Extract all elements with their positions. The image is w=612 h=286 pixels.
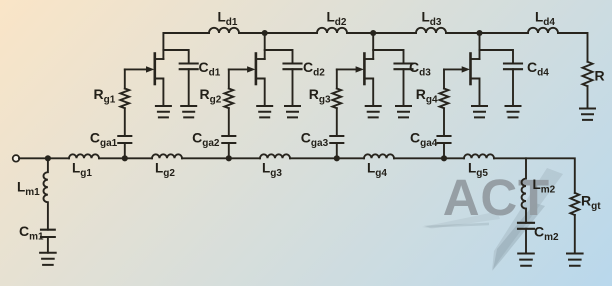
svg-text:Cd4: Cd4 <box>527 59 549 79</box>
wire: Rg4 to Cga4 <box>443 108 445 136</box>
ground (Cm2) <box>518 254 534 266</box>
ground (Cd3) <box>396 106 411 117</box>
transistor Q4 drain lead <box>471 58 480 60</box>
svg-text:Ld4: Ld4 <box>535 10 555 29</box>
wire: Rgt to ground <box>574 215 576 254</box>
transistor Q3 gate wire with arrow <box>337 68 357 70</box>
wire: Lg1 to Lg2 <box>99 157 152 159</box>
wire: top rail Ld1 to Ld2 <box>239 32 317 34</box>
transistor Q1 source lead <box>155 79 164 107</box>
wire: Cm1 to ground <box>47 237 49 253</box>
capacitor Cga4 <box>438 136 451 143</box>
svg-text:Rg2: Rg2 <box>200 86 222 106</box>
capacitor Cd4 <box>504 64 522 70</box>
wire: Cd1 to ground <box>188 69 190 106</box>
wire: R to ground <box>587 86 589 108</box>
inductor Ld2 <box>317 28 347 33</box>
node: drain junction stage 4 <box>476 30 482 36</box>
node: drain junction stage 3 <box>370 30 376 36</box>
transistor Q1 bar <box>154 54 157 85</box>
top drain rail: segment left end to Ld1 <box>163 33 209 59</box>
ground (Cd1) <box>181 106 196 117</box>
wire: input to Lg1 <box>19 157 69 159</box>
wire: drain branch to Cd1 <box>163 50 188 64</box>
node: input junction <box>45 155 51 161</box>
watermark lightning bolt <box>492 168 563 271</box>
wire: Cga4 to gate rail <box>443 143 445 158</box>
transistor Q3 drain lead <box>364 58 373 60</box>
node: gate rail junction 1 <box>122 155 128 161</box>
wire: drain branch to Cd4 <box>480 50 514 64</box>
capacitor Cm2 <box>518 223 534 229</box>
capacitor Cm1 <box>41 230 55 237</box>
svg-text:Cm1: Cm1 <box>19 223 44 243</box>
svg-text:Cga4: Cga4 <box>410 129 438 149</box>
transistor Q2 bar <box>255 54 258 85</box>
resistor R <box>583 62 593 86</box>
transistor Q4 source lead <box>471 79 480 107</box>
ground (Q1 source) <box>156 106 171 117</box>
node: drain junction stage 2 <box>262 30 268 36</box>
capacitor Cga3 <box>330 136 343 143</box>
svg-text:Lm1: Lm1 <box>17 180 40 199</box>
ground (Cd4) <box>506 106 521 117</box>
capacitor Cd3 <box>395 64 413 70</box>
watermark swoosh wing <box>422 212 500 229</box>
resistor Rg4 <box>440 89 449 109</box>
resistor Rgt <box>570 193 579 215</box>
svg-text:Ld2: Ld2 <box>327 10 347 29</box>
wire: Rg3 to Cga3 <box>336 108 338 136</box>
svg-text:Cga1: Cga1 <box>90 129 118 149</box>
resistor Rg1 <box>120 89 129 109</box>
wire: Lg5 to Rgt corner <box>494 158 575 193</box>
svg-text:Ld3: Ld3 <box>422 10 442 29</box>
svg-text:Rgt: Rgt <box>581 193 601 213</box>
ground (R) <box>580 109 595 120</box>
inductor Lg1 <box>69 154 99 158</box>
wire: Cga3 to gate rail <box>336 143 338 158</box>
wire: Cd4 to ground <box>512 69 514 106</box>
wire: Cga1 to gate rail <box>124 143 126 158</box>
capacitor Cd2 <box>284 64 302 70</box>
transistor Q2 gate wire with arrow <box>229 68 248 70</box>
inductor Lg3 <box>260 154 290 158</box>
wire: drain branch to Cd2 <box>265 50 293 64</box>
wire: drain junction down <box>372 33 374 59</box>
inductor Ld1 <box>209 28 239 33</box>
wire: Cga2 to gate rail <box>228 143 230 158</box>
svg-text:R: R <box>595 67 605 83</box>
node: gate rail junction 4 <box>441 155 447 161</box>
input matching: inductor Lm1 <box>44 158 48 229</box>
node: gate rail junction 2 <box>226 155 232 161</box>
capacitor Cga2 <box>222 136 235 143</box>
wire: Lg3 to Lg4 <box>290 157 364 159</box>
capacitor Cd1 <box>180 64 198 70</box>
wire: top rail Ld3 to Ld4 <box>446 32 528 34</box>
ground (Q3 source) <box>366 106 381 117</box>
transistor Q1 gate wire with arrow <box>125 68 147 70</box>
svg-text:Rg4: Rg4 <box>416 86 438 106</box>
wire: top rail Ld2 to Ld3 <box>347 32 416 34</box>
inductor Ld3 <box>416 28 446 33</box>
wire: Cd3 to ground <box>403 69 405 106</box>
svg-text:Cd3: Cd3 <box>409 59 431 79</box>
svg-text:Lg2: Lg2 <box>155 161 175 180</box>
svg-text:Lg1: Lg1 <box>72 161 92 180</box>
transistor Q4 bar <box>469 54 472 85</box>
transistor Q2 drain lead <box>256 58 265 60</box>
node: gate rail junction 3 <box>334 155 340 161</box>
inductor Ld4 <box>528 28 558 33</box>
wire: Cd2 to ground <box>292 69 294 106</box>
wire: Lg2 to Lg3 <box>182 157 260 159</box>
resistor Rg3 <box>332 89 341 109</box>
wire: top rail Ld4 to resistor R <box>558 33 588 62</box>
output matching: inductor Lm2 <box>522 158 526 223</box>
transistor Q3 source lead <box>364 79 373 107</box>
wire: Rg2 to Cga2 <box>228 108 230 136</box>
wire: drain junction down <box>479 33 481 59</box>
capacitor Cga1 <box>118 136 131 143</box>
transistor Q2 source lead <box>256 79 265 107</box>
svg-text:Cd1: Cd1 <box>199 59 221 79</box>
inductor Lg4 <box>364 154 394 158</box>
inductor Lg2 <box>152 154 182 158</box>
transistor Q3 bar <box>363 54 366 85</box>
wire: Rg1 to Cga1 <box>124 108 126 136</box>
svg-text:Lg3: Lg3 <box>262 161 282 180</box>
transistor Q1 drain lead <box>155 58 164 60</box>
wire: Lg4 to Lg5 <box>394 157 464 159</box>
svg-text:Cd2: Cd2 <box>303 59 325 79</box>
ground (Q4 source) <box>472 106 487 117</box>
wire: gate down to Rg4 <box>443 69 445 88</box>
input terminal <box>13 155 20 162</box>
wire: Cm2 to ground <box>525 229 527 254</box>
svg-text:Rg3: Rg3 <box>309 86 331 106</box>
svg-text:Ld1: Ld1 <box>218 10 238 29</box>
svg-text:Lg4: Lg4 <box>367 161 387 180</box>
wire: drain branch to Cd3 <box>373 50 403 64</box>
svg-text:Cga3: Cga3 <box>301 129 329 149</box>
ground (Rgt) <box>567 254 583 266</box>
ground (Cd2) <box>285 106 300 117</box>
ground (Cm1) <box>40 253 56 265</box>
resistor Rg2 <box>224 89 233 109</box>
transistor Q4 gate wire with arrow <box>444 68 463 70</box>
wire: gate down to Rg1 <box>124 69 126 88</box>
wire: gate down to Rg2 <box>228 69 230 88</box>
wire: gate down to Rg3 <box>336 69 338 88</box>
ground (Q2 source) <box>257 106 272 117</box>
svg-text:Rg1: Rg1 <box>94 86 116 106</box>
wire: drain junction down <box>264 33 266 59</box>
inductor Lg5 <box>464 154 494 158</box>
svg-text:Cga2: Cga2 <box>192 129 220 149</box>
svg-text:Cm2: Cm2 <box>534 224 559 244</box>
